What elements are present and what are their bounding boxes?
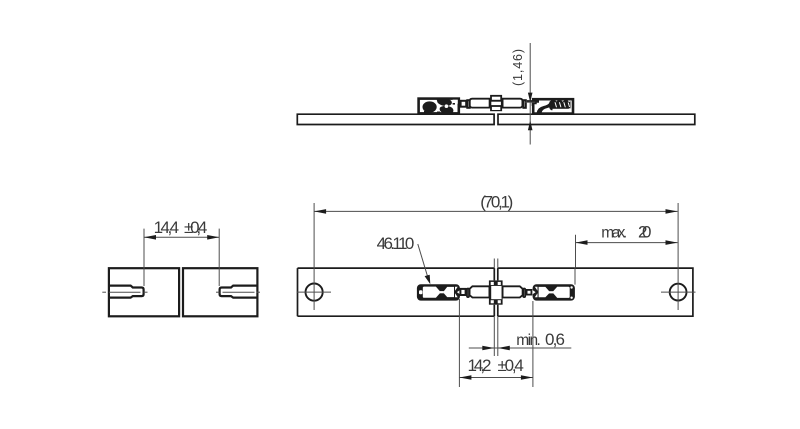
coupler left body (top view): [417, 284, 460, 300]
dimension 14,4 ±0,4: [144, 229, 219, 286]
tab left (top view): [460, 289, 465, 295]
right rivet hole: [670, 284, 687, 301]
center coupling block (side view): [490, 95, 502, 111]
arrow down (1,46): [528, 93, 533, 103]
profile bar right segment (side view): [498, 114, 695, 124]
svg-text:14,2: 14,2: [468, 356, 492, 375]
claw wedge bottom: [455, 293, 458, 297]
claw wedge left center: [533, 290, 536, 294]
claw wedge right center: [457, 290, 460, 294]
svg-text:20: 20: [638, 223, 652, 242]
claw wedge bottom: [535, 293, 538, 297]
bottom slot: [553, 109, 570, 112]
spring white gaps: [555, 102, 571, 107]
crimp hole: [445, 104, 449, 108]
left profile block: [109, 268, 179, 316]
spring crimp mass: [549, 100, 571, 111]
center coupling block (top view): [489, 280, 503, 304]
notch top-right: [453, 100, 458, 104]
left rivet hole: [306, 284, 323, 301]
rod left (top view): [470, 286, 490, 297]
hook tab right (side view): [527, 101, 533, 106]
dimension 14,2 ±0,4: [459, 299, 533, 387]
profile bar right segment (top view): [498, 268, 693, 316]
crimp mass lower: [440, 106, 454, 113]
claw wedge top: [535, 287, 538, 291]
window 1 with taper: [539, 287, 550, 297]
dimension (70,1): [314, 210, 677, 212]
right socket slot: [220, 286, 258, 298]
latch corner top-left: [535, 101, 540, 105]
vertical dimension line (1,46): [525, 43, 535, 145]
ball contact (filled ellipse): [423, 101, 437, 112]
left socket slot: [109, 286, 144, 298]
svg-text:0,6: 0,6: [545, 330, 565, 349]
right slot centerline: [216, 291, 260, 293]
waist channel: [440, 291, 444, 293]
collar left (top view): [467, 289, 469, 298]
dimension max. 20: [575, 235, 678, 285]
connector right end-piece housing (side view): [533, 99, 573, 113]
svg-text:46.110: 46.110: [377, 234, 415, 253]
svg-text:±0,4: ±0,4: [498, 356, 524, 375]
connector tab left (side view): [461, 101, 467, 107]
lever hook squiggle: [537, 102, 554, 113]
left edge notch: [419, 290, 422, 294]
dimension min. 0,6: [469, 347, 572, 349]
svg-text:(70,1): (70,1): [480, 193, 513, 212]
profile bar left segment (top view): [298, 268, 495, 316]
arrow up (1,46): [528, 121, 533, 131]
window 2: [444, 287, 454, 297]
svg-text:14,4: 14,4: [154, 218, 180, 237]
claw wedge top: [455, 287, 458, 291]
coupler right body (top view): [533, 284, 575, 300]
svg-text:(1,46): (1,46): [511, 49, 525, 86]
left slot centerline: [102, 291, 147, 293]
window 2 with taper: [553, 287, 570, 298]
hole centerlines: [297, 203, 696, 310]
svg-text:min.: min.: [516, 332, 541, 349]
connector left end-piece housing (side view): [419, 98, 459, 113]
right profile block: [183, 268, 257, 316]
window 1 with taper: [423, 287, 440, 298]
rod right (top view): [503, 286, 523, 297]
corner dots right: [570, 286, 572, 288]
connecting rod right (side view): [503, 99, 523, 108]
svg-text:max.: max.: [601, 225, 627, 242]
collar right (top view): [523, 289, 525, 298]
bottom tick marks: [424, 111, 440, 114]
connecting rod left (side view): [470, 99, 490, 108]
crimp mass upper: [437, 98, 452, 106]
split extension lines (top view): [494, 259, 498, 357]
svg-text:±0,4: ±0,4: [184, 218, 207, 237]
waist channel: [549, 291, 553, 293]
collar left (side view): [467, 100, 469, 108]
profile bar left segment (side view): [297, 114, 494, 124]
tab right (top view): [527, 290, 532, 295]
collar right (side view): [523, 100, 525, 108]
